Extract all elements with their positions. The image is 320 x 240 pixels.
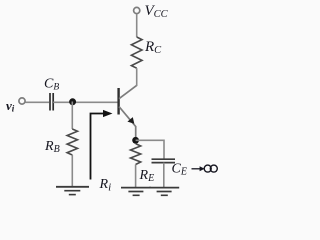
wire CB to base node (53, 101, 118, 103)
input terminal (open circle) (19, 98, 25, 104)
arrow Ri (input resistance bracket) (91, 110, 113, 180)
wire node down to RB (71, 102, 73, 130)
emitter diagonal (119, 107, 136, 127)
collector diagonal (119, 85, 137, 98)
resistor RC (131, 37, 142, 68)
wire RE to ground (135, 165, 137, 188)
wire RB to ground (71, 155, 73, 187)
resistor RE (131, 144, 141, 165)
capacitor CB (50, 93, 53, 111)
capacitor CE (152, 159, 176, 162)
wire RC to collector (136, 68, 138, 86)
wire VCC to RC (136, 14, 138, 37)
wire emitter node to CE branch (136, 140, 164, 158)
ground (below CE) (149, 188, 179, 196)
ground (below RB) (56, 187, 89, 195)
terminal VCC (open circle) (134, 7, 140, 13)
emitter arrowhead (127, 117, 134, 124)
wire emitter down to node (135, 126, 137, 140)
ground (below RE) (121, 188, 151, 196)
node: emitter junction (dot) (132, 137, 139, 144)
transistor Q1 (NPN) (119, 85, 137, 126)
wire CE to ground (163, 163, 165, 188)
resistor RB (67, 129, 77, 155)
wire input to CB (26, 101, 50, 103)
node: base junction (dot) (69, 98, 76, 105)
base bar (117, 88, 119, 115)
